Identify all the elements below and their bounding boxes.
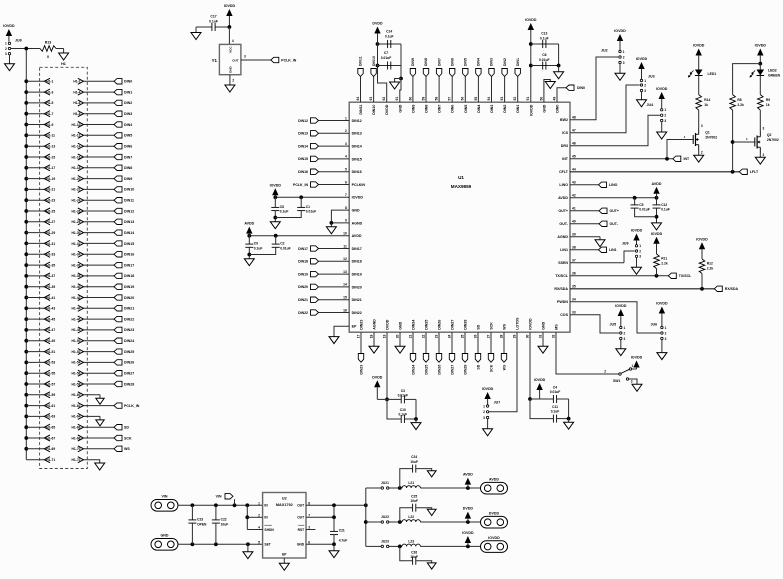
U1 left pin labels: [343, 116, 365, 328]
svg-text:H1-60: H1-60: [72, 393, 81, 397]
svg-text:H1-54: H1-54: [72, 361, 81, 365]
ground (C17): [191, 33, 201, 40]
inductor L21: [402, 481, 420, 488]
svg-text:CFLT: CFLT: [559, 170, 569, 174]
svg-text:DIN7: DIN7: [124, 155, 132, 159]
svg-text:3: 3: [631, 379, 633, 383]
svg-text:H1-19: H1-19: [46, 177, 55, 181]
svg-text:TX/SCL: TX/SCL: [555, 274, 569, 278]
power AVDD (pin42 group): [652, 182, 662, 198]
svg-text:45: 45: [572, 155, 576, 159]
connector H1 row H1-23/H1-24 (DIN11): [24, 197, 134, 203]
ground (C13/C8b): [554, 72, 564, 79]
svg-text:10uF: 10uF: [410, 499, 418, 503]
svg-text:OUT+: OUT+: [610, 209, 619, 213]
svg-text:DIN17: DIN17: [124, 263, 134, 267]
svg-text:OUT: OUT: [232, 58, 239, 62]
svg-text:H1-21: H1-21: [46, 188, 55, 192]
svg-text:OUT-: OUT-: [610, 222, 619, 226]
power IOVDD (JU8): [3, 24, 15, 42]
svg-text:BW2: BW2: [560, 118, 568, 122]
svg-text:MAX1792: MAX1792: [276, 503, 293, 507]
svg-text:2: 2: [763, 153, 765, 157]
connector H1 row H1-55/H1-56 (DIN27): [24, 370, 134, 376]
node OUT- (U1 pin 40): [570, 221, 619, 226]
jumper JU7: [482, 387, 500, 429]
ground (JU7): [483, 429, 493, 436]
svg-text:H1-18: H1-18: [72, 166, 81, 170]
connector H1 row H1-45/H1-46 (DIN22): [24, 316, 134, 322]
ground (EP): [329, 337, 339, 344]
svg-text:7: 7: [345, 193, 347, 197]
svg-text:H1-63: H1-63: [46, 415, 55, 419]
svg-text:DIN21: DIN21: [352, 298, 362, 302]
node DIN12 (U1 pin 1): [298, 118, 349, 123]
ground (JU5): [616, 349, 626, 356]
connector H1 row H1-43/H1-44 (DIN21): [24, 305, 134, 311]
svg-text:H1-64: H1-64: [72, 415, 81, 419]
power IOVDD (LED2): [755, 44, 767, 66]
svg-text:R14: R14: [704, 98, 710, 102]
power IOVDD (R12): [696, 237, 708, 259]
svg-text:AVDD: AVDD: [352, 234, 362, 238]
svg-text:55: 55: [474, 97, 478, 101]
svg-text:63: 63: [369, 97, 373, 101]
svg-text:H1-57: H1-57: [46, 382, 55, 386]
svg-text:DIN23: DIN23: [124, 328, 134, 332]
svg-text:C2: C2: [280, 242, 284, 246]
svg-text:DIN8: DIN8: [425, 105, 429, 113]
jumper JU8: [5, 39, 22, 56]
svg-text:H1-3: H1-3: [46, 90, 53, 94]
svg-text:DIN3: DIN3: [490, 105, 494, 113]
connector H1 row H1-7/H1-8 (DIN3): [24, 111, 132, 117]
svg-text:DIN2: DIN2: [503, 105, 507, 113]
power IOVDD (LED1): [693, 44, 705, 70]
transistor Q1 2N7002: [684, 129, 717, 151]
svg-text:DIN5: DIN5: [124, 134, 132, 138]
svg-text:DIN17: DIN17: [298, 247, 308, 251]
svg-text:2: 2: [232, 79, 234, 83]
svg-text:H1-46: H1-46: [72, 317, 81, 321]
connector H1 row H1-9/H1-10 (DIN4): [24, 122, 132, 128]
svg-text:IOVDD: IOVDD: [755, 44, 767, 48]
svg-text:DIN2: DIN2: [503, 58, 507, 66]
svg-text:27: 27: [486, 334, 490, 338]
svg-text:C13: C13: [541, 32, 547, 36]
connector H1 row H1-25/H1-26 (DIN12): [24, 208, 134, 214]
svg-text:0.01uF: 0.01uF: [306, 210, 316, 214]
svg-text:SCK: SCK: [489, 364, 493, 372]
svg-text:3: 3: [244, 55, 246, 59]
svg-text:SCK: SCK: [490, 322, 494, 330]
svg-text:JU5: JU5: [610, 323, 617, 327]
power IOVDD (pin30 group): [530, 378, 546, 399]
svg-text:INT: INT: [562, 157, 569, 161]
svg-text:5: 5: [345, 168, 347, 172]
svg-text:40: 40: [572, 220, 576, 224]
svg-text:R9: R9: [766, 98, 770, 102]
svg-text:DIN6: DIN6: [124, 145, 132, 149]
svg-text:H1-31: H1-31: [46, 242, 55, 246]
connector H1 row H1-57/H1-58 (DIN28): [24, 381, 134, 387]
capacitor C1: [297, 197, 316, 213]
wire C14/C7 ground rail to pin61: [399, 44, 403, 102]
svg-text:C8: C8: [542, 53, 546, 57]
node DIN5 (U1 pin 56): [463, 58, 468, 102]
svg-text:H1-20: H1-20: [72, 177, 81, 181]
ground (JU9): [632, 267, 642, 274]
svg-text:C3: C3: [401, 389, 405, 393]
svg-text:DVDD: DVDD: [386, 319, 390, 330]
wire U2 pin3 stub: [306, 529, 315, 531]
svg-text:DIN21: DIN21: [298, 298, 308, 302]
capacitor C8: [271, 197, 288, 213]
svg-text:H1-36: H1-36: [72, 263, 81, 267]
jumper JU6: [651, 302, 668, 353]
svg-text:10: 10: [343, 232, 347, 236]
wire U1 pin46 to JU4: [570, 115, 660, 146]
node DIN9 (U1 pin 60): [410, 58, 415, 102]
node DIN20 (U1 pin 14): [298, 284, 349, 289]
capacitor C2: [272, 236, 291, 251]
svg-text:H1-40: H1-40: [72, 285, 81, 289]
svg-text:C10: C10: [400, 408, 406, 412]
svg-text:DIN10: DIN10: [372, 56, 376, 66]
svg-text:DIN9: DIN9: [411, 58, 415, 66]
svg-text:DIN27: DIN27: [124, 372, 134, 376]
svg-text:12: 12: [343, 257, 347, 261]
svg-text:H1-42: H1-42: [72, 296, 81, 300]
svg-text:PCLK_IN: PCLK_IN: [293, 183, 308, 187]
ground (pin7 group): [270, 222, 280, 229]
svg-text:47: 47: [572, 129, 576, 133]
connector DVDD: [481, 511, 508, 528]
svg-text:DIN14: DIN14: [298, 144, 308, 148]
svg-text:R11: R11: [661, 257, 667, 261]
wire Q2 source: [760, 153, 764, 157]
LED LED2: [750, 64, 781, 78]
svg-text:DIN18: DIN18: [298, 260, 308, 264]
svg-text:DIN11: DIN11: [124, 199, 134, 203]
svg-text:H1-65: H1-65: [46, 426, 55, 430]
wire R9 to Q2: [760, 110, 764, 131]
svg-text:IOVDD: IOVDD: [352, 196, 364, 200]
svg-text:33: 33: [572, 311, 576, 315]
svg-text:10uF: 10uF: [410, 555, 418, 559]
node VIN tag: [216, 494, 235, 506]
connector H1 row H1-41/H1-42 (DIN20): [24, 295, 134, 301]
svg-text:26: 26: [473, 334, 477, 338]
svg-text:AGND: AGND: [373, 319, 377, 330]
svg-text:IOVDD: IOVDD: [529, 104, 533, 116]
wire branch DVDD: [366, 520, 483, 524]
U1 right pin labels: [554, 116, 575, 318]
node SCK (U1 pin 27): [488, 332, 493, 372]
svg-text:SCK: SCK: [124, 436, 132, 440]
ground (pin30 group): [564, 422, 574, 429]
svg-text:50: 50: [539, 97, 543, 101]
connector H1 row H1-61/H1-62 (PCLK_IN): [24, 403, 139, 409]
ground (JU3): [637, 100, 647, 107]
capacitor C5: [631, 198, 650, 212]
svg-text:WS: WS: [502, 364, 506, 370]
svg-text:5: 5: [258, 540, 260, 544]
svg-text:1: 1: [664, 108, 666, 112]
wire Y1 GND: [230, 75, 235, 85]
svg-text:DIN10: DIN10: [124, 188, 134, 192]
svg-text:DIN16: DIN16: [352, 170, 362, 174]
svg-text:0.1uF: 0.1uF: [661, 208, 670, 212]
jumper JU22: [381, 515, 389, 523]
svg-text:DIN24: DIN24: [124, 339, 134, 343]
connector IOVDD: [481, 536, 508, 553]
ground (pin19 group): [411, 423, 421, 430]
svg-text:58: 58: [435, 97, 439, 101]
svg-text:DIN18: DIN18: [352, 260, 362, 264]
svg-text:H1-53: H1-53: [46, 361, 55, 365]
wire C8/C1 to ground: [273, 211, 301, 222]
svg-text:DR3: DR3: [561, 144, 568, 148]
wire U2 GND pin: [306, 542, 336, 550]
svg-text:DVDD: DVDD: [385, 104, 389, 115]
svg-text:30: 30: [525, 334, 529, 338]
svg-text:2: 2: [624, 331, 626, 335]
svg-text:DIN10: DIN10: [372, 105, 376, 115]
svg-text:DIN13: DIN13: [124, 220, 134, 224]
svg-text:DIN0: DIN0: [124, 80, 132, 84]
node PCLK_IN (from Y1): [271, 57, 297, 62]
svg-text:3: 3: [664, 119, 666, 123]
svg-text:DIN15: DIN15: [352, 157, 362, 161]
svg-text:OPEN: OPEN: [197, 522, 207, 526]
svg-text:IOVDD: IOVDD: [488, 536, 500, 540]
node DIN17 (U1 pin 11): [298, 246, 349, 251]
ground (JU2): [615, 73, 625, 80]
wire U1 pin50 GND: [544, 80, 550, 103]
oscillator Y1: [212, 44, 241, 74]
svg-text:L21: L21: [408, 481, 414, 485]
capacitor C4: [540, 385, 569, 403]
resistor R11: [654, 254, 668, 276]
wire C4/C11 ground rail: [567, 399, 571, 422]
svg-text:H1-39: H1-39: [46, 285, 55, 289]
svg-text:RST: RST: [298, 528, 305, 532]
svg-text:DIN11: DIN11: [359, 56, 363, 66]
connector H1 row H1-15/H1-16 (DIN7): [24, 154, 132, 160]
connector H1 row H1-1/H1-2 (DIN0): [24, 78, 132, 84]
svg-text:Q1: Q1: [705, 131, 710, 135]
node DIN18 (U1 pin 12): [298, 259, 349, 264]
svg-text:H1-17: H1-17: [46, 166, 55, 170]
svg-text:H1-14: H1-14: [72, 145, 81, 149]
LED LED1: [688, 70, 716, 78]
svg-text:R12: R12: [707, 262, 713, 266]
svg-text:PCLKIN: PCLKIN: [352, 183, 366, 187]
svg-text:OUT+: OUT+: [558, 209, 568, 213]
svg-text:IOVDD: IOVDD: [631, 356, 643, 360]
svg-text:H1-69: H1-69: [46, 447, 55, 451]
svg-text:62: 62: [382, 97, 386, 101]
svg-text:IOVDD: IOVDD: [3, 24, 15, 28]
svg-text:DIN12: DIN12: [352, 119, 362, 123]
regulator U2 MAX1792 outline: [263, 493, 306, 559]
connector H1 row H1-51/H1-52 (DIN25): [24, 349, 134, 355]
svg-text:JU6: JU6: [651, 323, 658, 327]
svg-text:GND: GND: [399, 321, 403, 329]
svg-text:GND: GND: [542, 104, 546, 112]
svg-text:H1-67: H1-67: [46, 436, 55, 440]
svg-text:DIN15: DIN15: [298, 157, 308, 161]
svg-text:2: 2: [664, 114, 666, 118]
svg-text:44: 44: [572, 168, 576, 172]
jumper JU4: [647, 87, 668, 132]
svg-text:H1-15: H1-15: [46, 155, 55, 159]
svg-text:9: 9: [345, 219, 347, 223]
svg-text:61: 61: [395, 97, 399, 101]
node SD (U1 pin 26): [475, 332, 480, 369]
svg-text:AGND: AGND: [352, 221, 363, 225]
svg-text:GND: GND: [542, 321, 546, 329]
svg-text:DIN27: DIN27: [450, 365, 454, 375]
wire U1 pin35 RX/SDA: [570, 287, 714, 291]
capacitor C14: [378, 30, 402, 49]
svg-text:SD: SD: [476, 364, 480, 369]
connector H1 row H1-37/H1-38 (DIN18): [24, 273, 134, 279]
svg-text:RX/SDA: RX/SDA: [554, 287, 568, 291]
resistor R12: [699, 259, 713, 289]
svg-text:3: 3: [345, 142, 347, 146]
svg-text:R8: R8: [737, 98, 741, 102]
node DIN1 (U1 pin 52): [515, 58, 520, 102]
svg-text:1k: 1k: [704, 103, 708, 107]
svg-text:29: 29: [512, 334, 516, 338]
power DVDD (pin62 group): [372, 22, 383, 68]
svg-text:GREEN: GREEN: [768, 73, 781, 77]
svg-text:DIN13: DIN13: [298, 132, 308, 136]
ground (JU4): [657, 132, 667, 139]
svg-text:DIN4: DIN4: [477, 58, 481, 66]
svg-text:H1-7: H1-7: [46, 112, 53, 116]
svg-text:1: 1: [258, 501, 260, 505]
svg-text:4.7uF: 4.7uF: [339, 539, 348, 543]
svg-text:21: 21: [408, 334, 412, 338]
wire C3/C10 ground rail: [414, 399, 418, 422]
svg-text:DIN7: DIN7: [438, 105, 442, 113]
svg-text:IOVDD: IOVDD: [482, 387, 494, 391]
svg-text:DIN18: DIN18: [124, 274, 134, 278]
wire JU8 pin2 to bus: [11, 48, 40, 50]
svg-text:VCC: VCC: [229, 46, 233, 53]
svg-text:IOVDD: IOVDD: [529, 318, 533, 330]
svg-text:H1-61: H1-61: [46, 404, 55, 408]
svg-text:19: 19: [382, 334, 386, 338]
svg-text:H1-6: H1-6: [73, 101, 80, 105]
svg-text:0.01uF: 0.01uF: [539, 58, 549, 62]
svg-text:H1-4: H1-4: [73, 90, 80, 94]
svg-text:JU8: JU8: [15, 39, 22, 43]
wire U1 pin33 COS to JU5: [570, 315, 619, 333]
svg-text:C17: C17: [210, 15, 216, 19]
svg-text:3: 3: [763, 127, 765, 131]
svg-text:DIN15: DIN15: [124, 242, 134, 246]
connector H1 row H1-65/H1-66 (SD): [24, 424, 129, 430]
svg-text:36: 36: [572, 272, 576, 276]
capacitor C7: [378, 51, 402, 70]
node DIN11 (U1 pin 64): [358, 56, 363, 102]
resistor R14: [696, 76, 711, 111]
node LFLT: [739, 169, 759, 174]
resistor R13: [40, 41, 56, 60]
connector H1 row H1-13/H1-14 (DIN6): [24, 143, 132, 149]
svg-text:H1-35: H1-35: [46, 263, 55, 267]
svg-text:0.01uF: 0.01uF: [639, 208, 649, 212]
svg-text:H1-37: H1-37: [46, 274, 55, 278]
svg-text:H1-59: H1-59: [46, 393, 55, 397]
svg-text:16: 16: [343, 308, 347, 312]
capacitor C11: [530, 399, 569, 423]
ground (DVDD group): [390, 79, 401, 90]
svg-text:14: 14: [343, 283, 347, 287]
svg-text:DIN12: DIN12: [298, 119, 308, 123]
node DIN24 (U1 pin 21): [410, 332, 415, 374]
ground (pin10 group): [244, 259, 254, 266]
svg-text:EP: EP: [352, 325, 357, 329]
svg-text:IOVDD: IOVDD: [631, 229, 643, 233]
svg-text:6: 6: [345, 180, 347, 184]
node PCLK_IN (U1 pin 6): [293, 182, 349, 187]
svg-text:H1-9: H1-9: [46, 123, 53, 127]
ground (U1 pin 31): [538, 332, 548, 353]
svg-text:2: 2: [483, 410, 485, 414]
svg-text:SD: SD: [477, 324, 481, 329]
node INT: [673, 156, 690, 161]
svg-text:SET: SET: [264, 543, 270, 547]
connector H1 row H1-11/H1-12 (DIN5): [24, 132, 132, 138]
svg-text:PCLK_IN: PCLK_IN: [124, 404, 140, 408]
node DIN3 (U1 pin 54): [489, 58, 494, 102]
jumper JU5: [610, 304, 627, 349]
power IOVDD (Y1): [224, 4, 236, 27]
ground (C25): [427, 509, 436, 515]
svg-text:H1-43: H1-43: [46, 307, 55, 311]
svg-text:2: 2: [623, 55, 625, 59]
svg-text:C12: C12: [661, 203, 667, 207]
power AVDD (pin10 group): [244, 222, 254, 236]
svg-text:H1-23: H1-23: [46, 199, 55, 203]
svg-text:IOVDD: IOVDD: [615, 304, 627, 308]
svg-text:53: 53: [500, 97, 504, 101]
svg-text:LIN1: LIN1: [609, 248, 617, 252]
svg-text:0.01uF: 0.01uF: [550, 390, 560, 394]
svg-text:2.2k: 2.2k: [661, 262, 668, 266]
ground (U2 EP): [279, 558, 289, 570]
svg-text:H1-48: H1-48: [72, 328, 81, 332]
svg-text:JU23: JU23: [381, 540, 389, 544]
svg-text:U2: U2: [282, 497, 287, 501]
svg-text:C22: C22: [221, 518, 227, 522]
wire DVDD rail to pin62: [378, 44, 387, 102]
svg-text:IOVDD: IOVDD: [462, 531, 474, 535]
svg-text:IOVDD: IOVDD: [534, 378, 546, 382]
ground (pin39): [595, 240, 605, 247]
connector H1 row H1-27/H1-28 (DIN13): [24, 219, 134, 225]
node DIN0 (U1 pin 49): [557, 85, 585, 102]
svg-text:VIN: VIN: [216, 495, 222, 499]
connector H1 row H1-3/H1-4 (DIN1): [24, 89, 132, 95]
node LINO (U1 pin 43): [570, 182, 618, 187]
ground (Q2): [755, 157, 765, 164]
